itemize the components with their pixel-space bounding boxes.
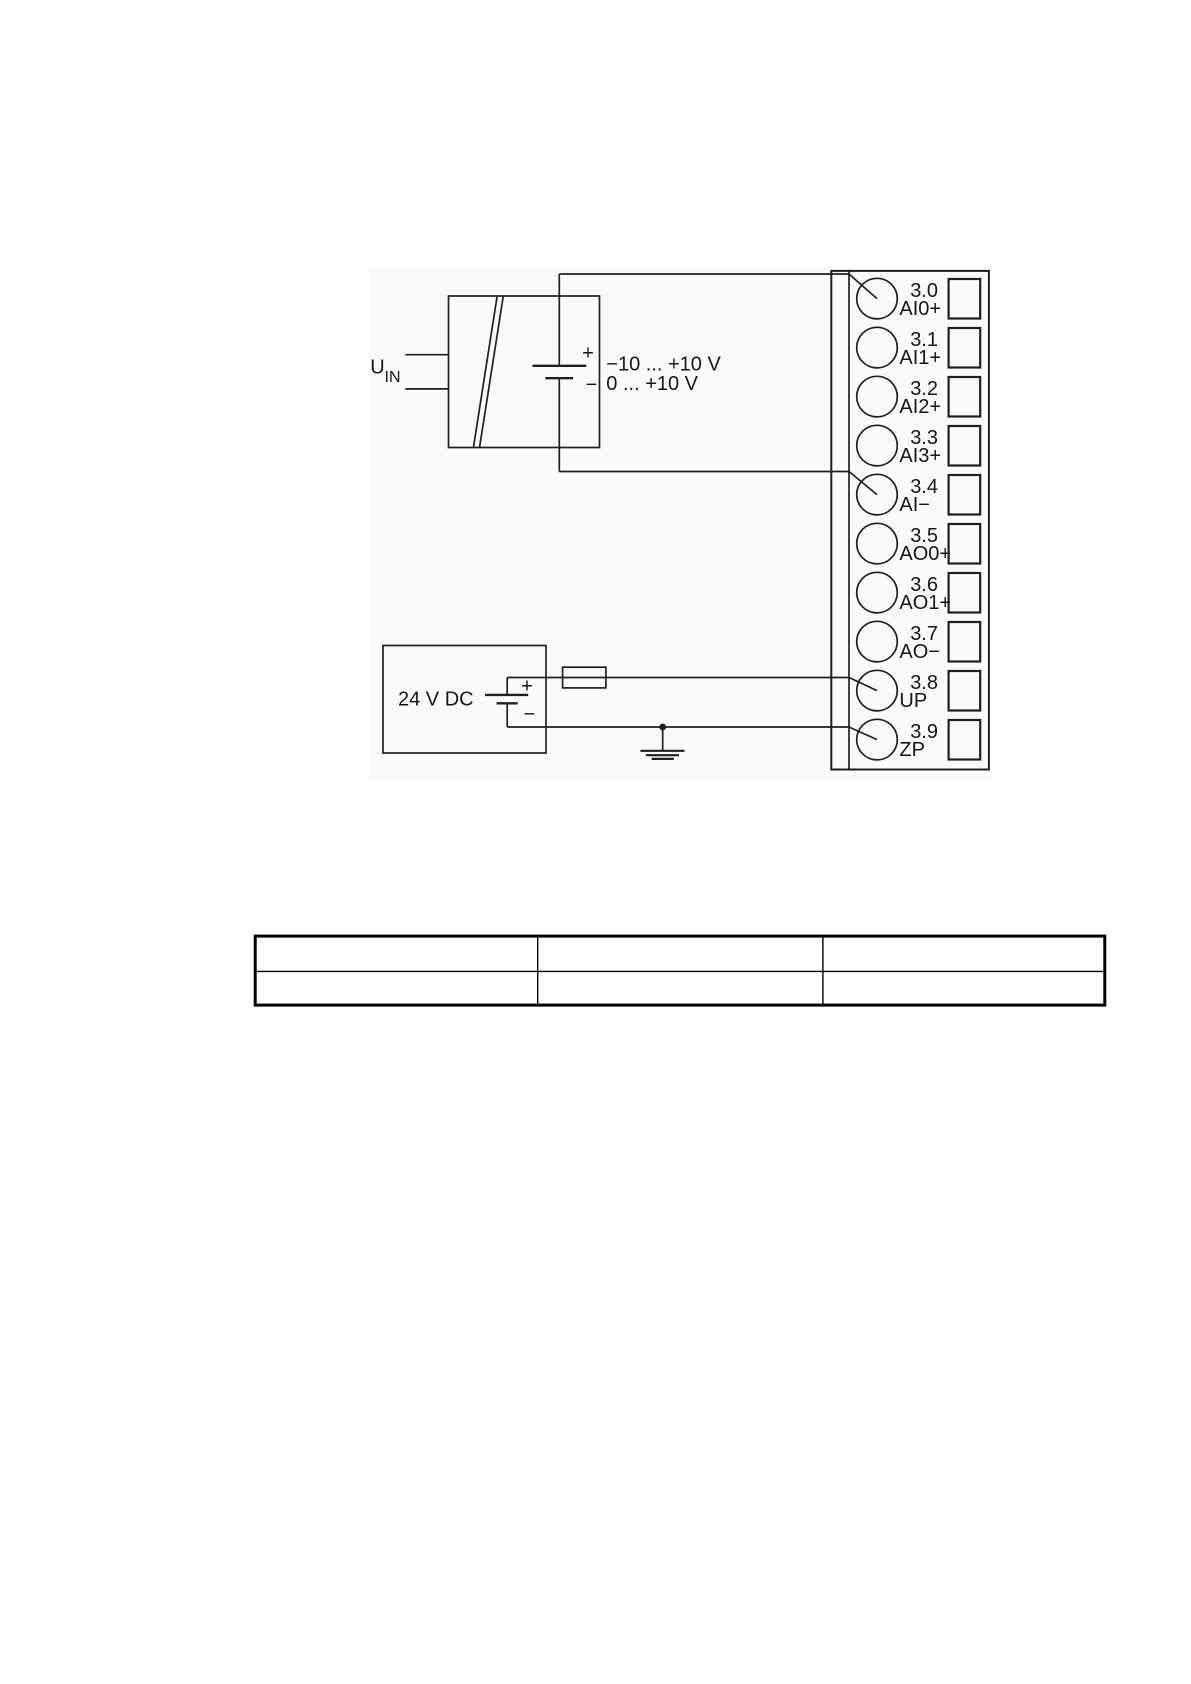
svg-text:IN: IN [385,369,401,386]
battery V2 negative lead [506,703,508,727]
svg-text:0 ... +10 V: 0 ... +10 V [606,373,698,395]
svg-text:AO0+: AO0+ [899,543,951,565]
wire diagonal into terminal 3.0 [849,274,877,299]
svg-text:U: U [370,357,384,379]
wire UP supply to terminal 3.8 [507,677,849,679]
terminal 3.7 AO- [857,621,980,663]
isolation converter diagonal stripe 2 [480,297,504,448]
junction dot ground node [659,724,666,731]
wire diagonal into terminal 3.9 [849,727,877,740]
svg-text:−: − [586,374,598,396]
fuse F1 [563,667,606,688]
wire diagonal into terminal 3.8 [849,678,877,691]
wire ZP return to terminal 3.9 [507,726,849,728]
terminal 3.5 AO0+ [857,523,980,565]
battery V2 positive plate [485,694,528,696]
terminal block inner rail [848,271,850,770]
terminal 3.9 ZP [857,719,980,761]
table outer border [255,936,1105,1005]
svg-text:UP: UP [899,690,927,712]
svg-text:AO1+: AO1+ [899,592,951,614]
battery V1 negative plate [545,377,573,379]
terminal 3.6 AO1+ [857,572,980,614]
ground bar 2 [646,754,679,756]
terminal 3.0 AI0+ [857,278,980,320]
wire battery V1 negative lead [558,378,560,471]
table column divider 1 [537,936,539,1005]
voltage range label [606,354,721,395]
node UIN label [370,357,400,386]
wire diagonal into terminal 3.4 [849,472,877,495]
ground bar 3 [652,758,674,760]
battery V1 positive plate [533,365,587,367]
svg-text:AO−: AO− [899,641,940,663]
svg-text:AI0+: AI0+ [899,298,941,320]
terminal 3.8 UP [857,670,980,712]
terminal 3.1 AI1+ [857,327,980,369]
wire UIN bottom lead [405,388,448,390]
svg-text:−: − [524,703,536,725]
ground stem [662,727,664,751]
battery V2 positive lead [506,678,508,695]
terminal block outer frame [831,271,989,770]
svg-text:+: + [521,675,533,697]
terminal 3.2 AI2+ [857,376,980,418]
battery V2 negative plate [497,702,518,704]
svg-text:AI2+: AI2+ [899,396,941,418]
table column divider 2 [822,936,824,1005]
svg-text:AI−: AI− [899,494,930,516]
svg-text:AI3+: AI3+ [899,445,941,467]
isolation converter diagonal stripe 1 [474,297,498,448]
terminal 3.3 AI3+ [857,425,980,467]
wire converter output top to terminal 3.0 [559,273,849,275]
wire battery V1 positive lead [558,274,560,366]
table row divider [255,970,1105,972]
ground bar 1 [640,750,684,752]
wire UIN top lead [405,354,448,356]
24 V DC source box [383,646,546,754]
wire converter output bottom to terminal 3.4 [559,471,849,473]
svg-text:ZP: ZP [899,739,925,761]
svg-text:24 V DC: 24 V DC [398,688,474,710]
svg-text:AI1+: AI1+ [899,347,941,369]
isolation converter U1 box [449,296,600,448]
terminal 3.4 AI- [857,474,980,516]
svg-text:+: + [582,343,594,365]
